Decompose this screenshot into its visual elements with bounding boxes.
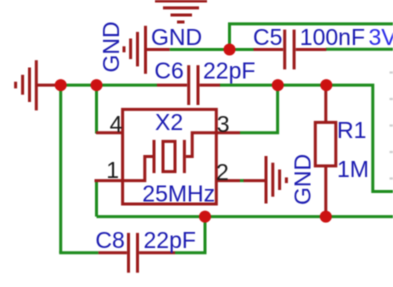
svg-text:3: 3: [217, 111, 230, 137]
svg-text:GND: GND: [98, 21, 124, 72]
svg-text:R1: R1: [337, 117, 366, 143]
svg-text:22pF: 22pF: [144, 227, 196, 253]
svg-text:25MHz: 25MHz: [142, 181, 215, 207]
svg-text:22pF: 22pF: [203, 58, 255, 84]
svg-text:4: 4: [110, 111, 123, 137]
svg-text:2: 2: [216, 159, 229, 185]
svg-text:X2: X2: [155, 109, 183, 135]
svg-text:C5: C5: [253, 24, 282, 50]
svg-text:3V: 3V: [369, 24, 393, 50]
svg-text:1: 1: [106, 157, 119, 183]
svg-text:GND: GND: [151, 24, 202, 50]
svg-text:100nF: 100nF: [300, 24, 365, 50]
svg-text:C6: C6: [154, 58, 183, 84]
svg-text:GND: GND: [290, 154, 316, 205]
svg-text:1M: 1M: [337, 156, 369, 182]
svg-text:C8: C8: [95, 227, 124, 253]
